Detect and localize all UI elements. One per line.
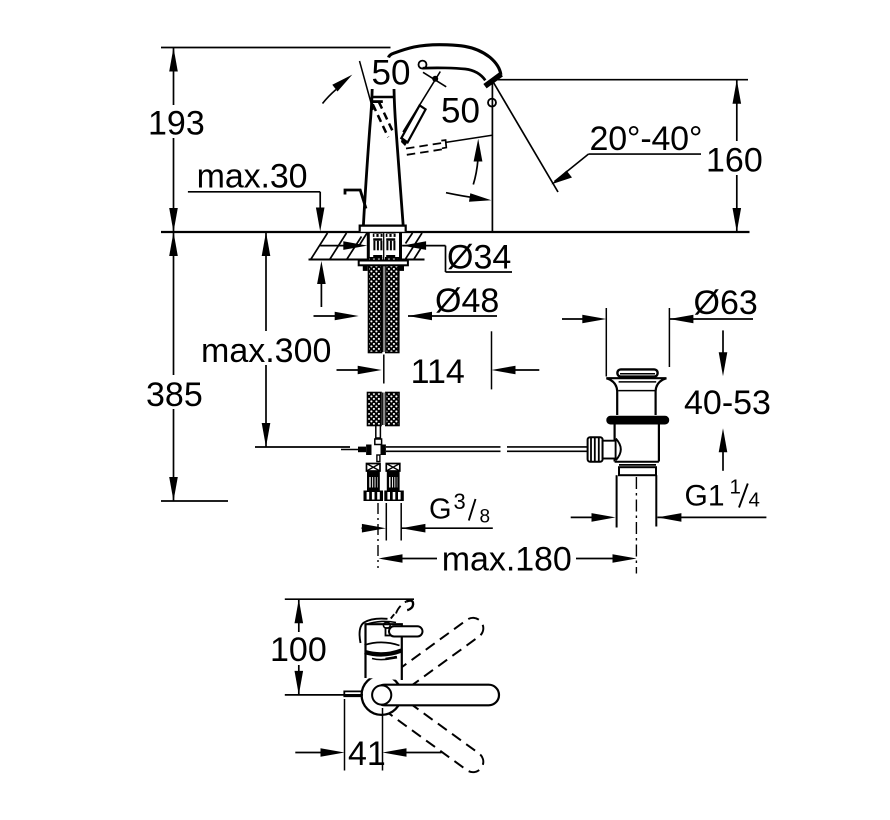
cross dot — [432, 76, 438, 82]
water stream diagonal — [493, 82, 558, 193]
check valve left body — [367, 471, 380, 491]
swing arc up arrow — [473, 160, 478, 185]
lever axis line — [403, 72, 440, 133]
shank threaded right wall — [399, 233, 402, 260]
svg-text:max.30: max.30 — [197, 158, 308, 196]
drain valve body — [615, 425, 659, 462]
dim 385 bottom tick — [161, 500, 228, 502]
dim max180 — [379, 554, 403, 563]
dashed lever horizontal — [406, 143, 445, 155]
hose braid lower left — [368, 393, 382, 426]
svg-text:3: 3 — [454, 489, 466, 514]
top view solid lever arm — [375, 685, 500, 706]
side lever hook left — [345, 190, 366, 209]
side lever solid — [401, 105, 425, 142]
drain push button — [617, 369, 657, 376]
faucet base plate — [360, 226, 406, 232]
spout inner curve — [423, 68, 486, 80]
label 160 — [706, 141, 767, 180]
pull rod vertical — [376, 426, 381, 439]
rod clamp top tab — [375, 439, 382, 445]
pull rod between hoses lower — [383, 393, 386, 426]
label 385 — [143, 375, 205, 414]
drain tail pipe — [616, 475, 618, 527]
shank threaded left wall — [367, 233, 370, 260]
lever grip end cap — [441, 140, 446, 148]
rod clamp right block — [381, 445, 386, 456]
dashed lever hidden — [373, 102, 395, 137]
top view spout tip dashed — [391, 601, 413, 619]
dia34 leader — [445, 246, 447, 272]
dim 114 — [337, 369, 360, 371]
label 100 — [269, 631, 329, 669]
50deg leader arrow curved — [323, 90, 337, 104]
dim 40-53 lower arrow — [722, 448, 724, 471]
dim 160 top reference line — [492, 79, 748, 81]
lever pivot shade — [401, 137, 408, 146]
dim 100 top tick — [285, 598, 414, 600]
ball joint arc — [616, 439, 621, 461]
dim dia34 arrows — [320, 245, 345, 247]
trumpet inner lines — [619, 381, 657, 383]
dim 40-53 upper arrow — [722, 330, 724, 354]
top view handle lever — [386, 628, 393, 636]
spout outlet face — [485, 74, 501, 86]
svg-text:114: 114 — [411, 353, 465, 391]
valve center dash line — [377, 503, 379, 568]
horizontal rod left thin — [341, 449, 366, 451]
deck underside line — [309, 259, 368, 261]
dim 385 vertical line — [173, 232, 175, 501]
drain knurled knob — [588, 437, 603, 462]
faucet body outline — [363, 89, 372, 226]
svg-text:50°: 50° — [372, 54, 430, 93]
svg-text:G1: G1 — [685, 480, 725, 513]
label G38 — [429, 489, 490, 528]
hose braid upper right — [386, 258, 399, 353]
svg-text:Ø63: Ø63 — [694, 284, 758, 322]
lever cross stroke — [423, 72, 446, 87]
svg-text:100: 100 — [270, 631, 327, 669]
flange nub left — [363, 266, 368, 271]
dim 41 extension lines — [344, 699, 346, 771]
svg-text:20°-40°: 20°-40° — [590, 120, 703, 158]
max30 lower up arrow — [317, 261, 326, 284]
dim 160 vertical line — [736, 80, 738, 232]
shank thread comb left — [373, 234, 383, 258]
drain seal ring — [606, 416, 669, 425]
mounting flange dia48 — [359, 261, 408, 266]
drain flange trumpet — [606, 378, 666, 415]
swing arc bottom — [446, 193, 478, 199]
top view left stub — [344, 691, 362, 696]
knob connector — [603, 441, 616, 459]
dim G38 arrows — [362, 527, 365, 529]
check valve left nut — [364, 491, 384, 502]
top view sketch curves — [360, 619, 402, 660]
svg-text:8: 8 — [480, 507, 491, 528]
svg-text:41: 41 — [348, 735, 386, 773]
svg-text:193: 193 — [148, 105, 205, 143]
deck counter line — [161, 231, 750, 233]
svg-text:max.180: max.180 — [442, 541, 572, 579]
svg-text:max.300: max.300 — [201, 332, 331, 370]
rod left block — [358, 447, 366, 453]
dim max30 leader — [188, 191, 320, 193]
spout outer curve — [389, 45, 501, 75]
svg-text:G: G — [429, 494, 452, 526]
flange nub right — [399, 266, 404, 271]
svg-text:Ø48: Ø48 — [435, 282, 499, 320]
dim max300 vertical line — [265, 232, 267, 447]
label G114 — [685, 476, 760, 513]
dim 193 vertical line — [173, 48, 175, 233]
top view body — [366, 624, 402, 680]
shank center line — [383, 233, 385, 260]
G38 extension lines — [385, 503, 387, 541]
vertical line from spout outlet — [491, 82, 493, 232]
dim dia48 — [314, 315, 339, 317]
top view dashed lever down-right — [375, 687, 487, 777]
horizontal rod segment A — [386, 447, 501, 451]
dia63 extension left — [605, 308, 607, 377]
dim dia63 — [562, 318, 584, 320]
drain center line — [635, 477, 637, 574]
faucet neck joint line — [372, 96, 394, 98]
check valve right body — [387, 471, 400, 491]
check valve right top — [386, 464, 400, 472]
thin reference line to vertical — [445, 135, 492, 142]
rod clamp bottom stem — [377, 455, 380, 462]
dim 100 bottom tick — [285, 694, 363, 696]
top view rod loop — [383, 622, 390, 628]
svg-text:50°: 50° — [441, 92, 499, 131]
top view dashed lever up-right — [375, 614, 487, 704]
lever extension thin line — [360, 61, 374, 110]
dim 193 top reference line — [161, 47, 391, 49]
drain body bottom rings — [615, 461, 659, 463]
svg-text:40-53: 40-53 — [684, 384, 771, 422]
top view inner circle — [372, 685, 391, 704]
svg-text:385: 385 — [146, 376, 203, 414]
20-40 leader — [555, 154, 589, 181]
rod clamp left block — [366, 445, 371, 456]
check valve right nut — [384, 491, 404, 502]
svg-text:1: 1 — [730, 476, 741, 499]
dim 100 vertical line — [298, 599, 300, 695]
hose braid upper left — [369, 258, 382, 353]
label 193 — [148, 105, 206, 143]
horizontal rod segment B — [507, 447, 588, 451]
dim max300 bottom tick — [255, 446, 350, 448]
deck hatch right — [406, 233, 425, 259]
svg-text:4: 4 — [749, 489, 760, 512]
dia63 extension right — [668, 308, 670, 367]
dim G114 — [571, 516, 594, 518]
label max300 — [200, 331, 332, 370]
pull rod between hoses — [383, 266, 386, 352]
dim 41 arrows — [295, 752, 322, 754]
top view outer circle — [362, 675, 402, 715]
svg-text:160: 160 — [706, 142, 763, 180]
check valve left top — [367, 464, 381, 472]
svg-text:Ø34: Ø34 — [447, 239, 511, 277]
hose braid lower right — [386, 393, 399, 426]
shank thread comb right — [386, 234, 396, 258]
deck hatch left — [311, 233, 367, 259]
